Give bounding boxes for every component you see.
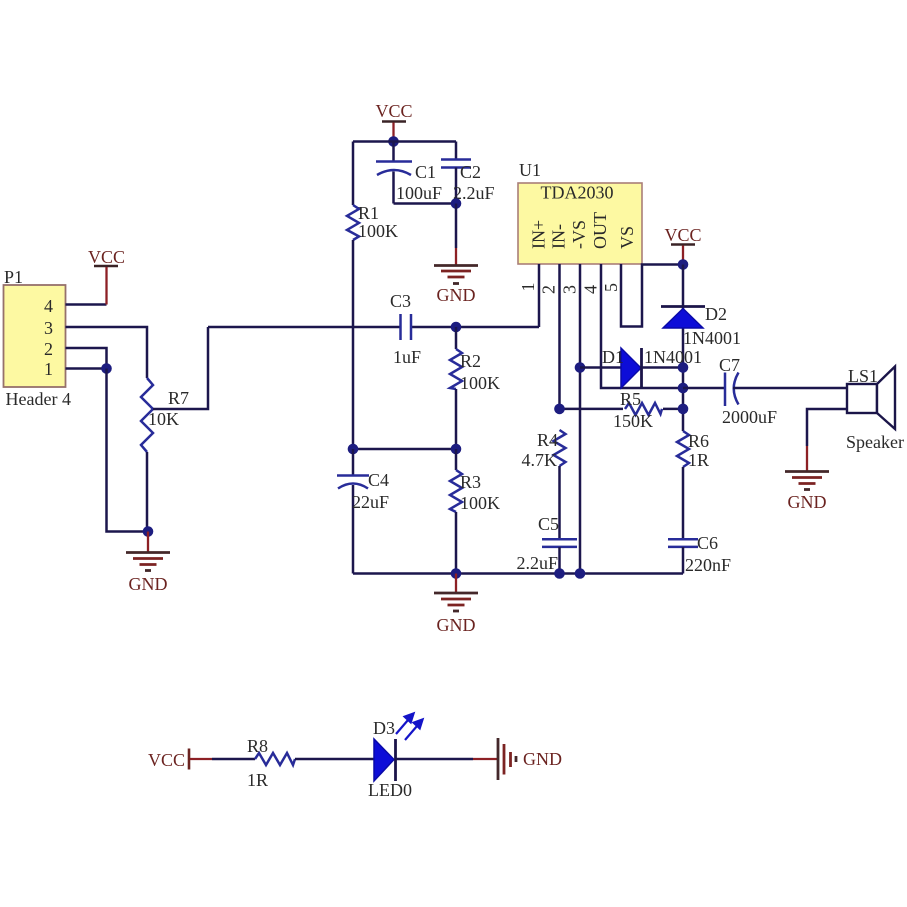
svg-text:GND: GND: [437, 615, 476, 635]
svg-text:LS1: LS1: [848, 366, 878, 386]
ground GND below C2: [434, 204, 478, 306]
wire top rail: [353, 140, 456, 143]
svg-text:2.2uF: 2.2uF: [516, 553, 558, 573]
node C5 bottom junction: [554, 568, 565, 579]
resistor R4: [522, 430, 566, 470]
diode D2 1N4001: [661, 304, 741, 348]
svg-text:220nF: 220nF: [685, 555, 731, 575]
resistor R2: [450, 349, 500, 393]
svg-text:2: 2: [44, 339, 53, 359]
wire D1 cathode: [642, 366, 684, 369]
node VS VCC junction: [678, 259, 689, 270]
wire R7 bottom to ground junction: [146, 452, 149, 532]
resistor R3: [450, 449, 500, 574]
wire C6 bottom: [682, 547, 685, 574]
svg-text:R7: R7: [168, 388, 189, 408]
node R2 R3 junction: [451, 444, 462, 455]
wire OUT to C7: [683, 387, 725, 390]
svg-text:OUT: OUT: [590, 212, 610, 249]
svg-text:R6: R6: [688, 431, 709, 451]
wire R7 tap to input net: [153, 327, 208, 409]
node VCC top junction: [388, 136, 399, 147]
node pin3 bottom junction: [575, 568, 586, 579]
svg-text:U1: U1: [519, 160, 541, 180]
wire R4 to C5: [558, 466, 561, 539]
svg-text:GND: GND: [788, 492, 827, 512]
power VCC LED row: [148, 749, 212, 771]
wire R2 bottom to mid node: [455, 389, 458, 449]
svg-text:VCC: VCC: [375, 101, 412, 121]
wire U1 pin5 VS loop: [621, 264, 683, 327]
svg-text:VCC: VCC: [88, 247, 125, 267]
svg-text:R8: R8: [247, 736, 268, 756]
wire mid rail C4 to R3: [353, 448, 456, 451]
capacitor C3: [390, 291, 421, 367]
wire R1 bottom rail down to C4 node: [352, 240, 355, 449]
svg-text:D1: D1: [602, 347, 624, 367]
wire VCC to R8: [212, 758, 255, 761]
power VCC top: [375, 101, 412, 142]
svg-text:P1: P1: [4, 267, 23, 287]
svg-text:4.7K: 4.7K: [522, 450, 558, 470]
wire P1 pin1 stub: [66, 367, 107, 370]
svg-text:LED0: LED0: [368, 780, 412, 800]
resistor R8: [247, 736, 295, 790]
svg-text:VS: VS: [617, 226, 637, 249]
svg-text:IN+: IN+: [529, 220, 549, 249]
capacitor C7: [719, 355, 777, 427]
svg-text:C6: C6: [697, 533, 718, 553]
node OUT rail junction: [678, 383, 689, 394]
svg-text:R3: R3: [460, 472, 481, 492]
svg-text:2000uF: 2000uF: [722, 407, 777, 427]
capacitor C1: [376, 142, 442, 204]
svg-text:R4: R4: [537, 430, 558, 450]
svg-text:1uF: 1uF: [393, 347, 421, 367]
wire C1 bottom to C2 bottom: [394, 202, 457, 205]
wire U1 pin1: [538, 264, 541, 327]
svg-text:100K: 100K: [460, 373, 500, 393]
svg-text:C5: C5: [538, 514, 559, 534]
node C2 ground junction: [451, 198, 462, 209]
op-amp U1 TDA2030: [518, 160, 642, 264]
svg-text:2: 2: [539, 285, 559, 294]
power VCC P1: [88, 247, 125, 305]
node input C3 junction: [451, 322, 462, 333]
wire U1 pin2: [558, 264, 561, 409]
svg-text:1R: 1R: [247, 770, 268, 790]
svg-text:4: 4: [44, 296, 53, 316]
resistor R7: [141, 378, 189, 452]
svg-text:Header 4: Header 4: [6, 389, 71, 409]
wire R5 left: [560, 408, 624, 411]
svg-text:4: 4: [581, 285, 601, 294]
node R5 R4 pin2 junction: [554, 404, 565, 415]
wire R1 rail upper: [352, 142, 355, 206]
wire input net left segment: [208, 326, 400, 329]
ground GND left: [126, 532, 170, 595]
svg-text:C7: C7: [719, 355, 740, 375]
svg-text:D3: D3: [373, 718, 395, 738]
resistor R5: [613, 389, 662, 431]
svg-text:-VS: -VS: [569, 220, 589, 249]
svg-text:GND: GND: [437, 285, 476, 305]
capacitor C5: [516, 514, 577, 573]
svg-text:VCC: VCC: [664, 225, 701, 245]
capacitor C4: [337, 449, 389, 574]
wire VCC rail down: [682, 265, 685, 432]
svg-text:1R: 1R: [688, 450, 709, 470]
node R5 R6 junction: [678, 404, 689, 415]
svg-text:1N4001: 1N4001: [683, 328, 741, 348]
node P1 pin1 junction: [101, 363, 112, 374]
diode D1 1N4001: [602, 347, 702, 388]
wire P1 pin2 stub: [66, 348, 107, 369]
wire R5 right: [663, 408, 683, 411]
svg-text:R2: R2: [460, 351, 481, 371]
svg-text:1N4001: 1N4001: [644, 347, 702, 367]
svg-text:R5: R5: [620, 389, 641, 409]
node D1 pin3 junction: [575, 362, 586, 373]
svg-text:TDA2030: TDA2030: [541, 183, 614, 203]
wire R2 rail upper: [455, 327, 458, 349]
wire R6 to C6: [682, 467, 685, 539]
svg-text:IN-: IN-: [549, 224, 569, 249]
wire U1 pin4 OUT: [601, 264, 683, 388]
svg-text:1: 1: [518, 283, 538, 292]
svg-text:3: 3: [44, 318, 53, 338]
svg-text:100K: 100K: [460, 493, 500, 513]
svg-text:C4: C4: [368, 470, 389, 490]
capacitor C2: [441, 142, 495, 204]
svg-text:D2: D2: [705, 304, 727, 324]
wire C7 to speaker: [733, 387, 847, 390]
wire speaker bottom to ground: [807, 409, 847, 446]
ground GND bottom center: [434, 574, 478, 636]
svg-text:3: 3: [560, 285, 580, 294]
wire U1 pin3: [579, 264, 582, 574]
ground GND speaker: [785, 446, 829, 512]
svg-text:Speaker: Speaker: [846, 432, 904, 452]
svg-text:22uF: 22uF: [352, 492, 389, 512]
node ground junction left: [143, 526, 154, 537]
wire P1 pin3 to R7 top: [66, 327, 148, 378]
svg-text:R1: R1: [358, 203, 379, 223]
capacitor C6: [668, 533, 731, 575]
wire C5 bottom: [558, 547, 561, 574]
node bottom rail R3 junction: [451, 568, 462, 579]
wire bottom ground rail: [353, 572, 683, 575]
resistor R6: [677, 431, 709, 470]
wire R8 to D3: [295, 758, 374, 761]
svg-text:C1: C1: [415, 162, 436, 182]
svg-text:100K: 100K: [358, 221, 398, 241]
svg-text:GND: GND: [523, 749, 562, 769]
node D1 VCC rail junction: [678, 362, 689, 373]
svg-text:10K: 10K: [148, 409, 179, 429]
speaker LS1: [846, 366, 904, 452]
resistor R1: [347, 203, 398, 241]
connector P1 Header 4: [4, 267, 71, 409]
svg-text:GND: GND: [129, 574, 168, 594]
wire P1 pin4 stub: [66, 303, 107, 306]
wire input net right segment: [412, 326, 540, 329]
svg-text:150K: 150K: [613, 411, 653, 431]
svg-text:C3: C3: [390, 291, 411, 311]
diode D3 LED0: [368, 713, 424, 801]
svg-text:VCC: VCC: [148, 750, 185, 770]
wire D3 to ground: [396, 758, 474, 761]
wire D1 anode: [580, 366, 621, 369]
ground GND LED row: [473, 738, 562, 780]
svg-text:5: 5: [601, 283, 621, 292]
node C4 junction: [348, 444, 359, 455]
svg-text:100uF: 100uF: [396, 183, 442, 203]
svg-text:1: 1: [44, 359, 53, 379]
svg-text:C2: C2: [460, 162, 481, 182]
wire pin1 rail down to ground corner: [107, 369, 149, 532]
power VCC right: [664, 225, 701, 265]
